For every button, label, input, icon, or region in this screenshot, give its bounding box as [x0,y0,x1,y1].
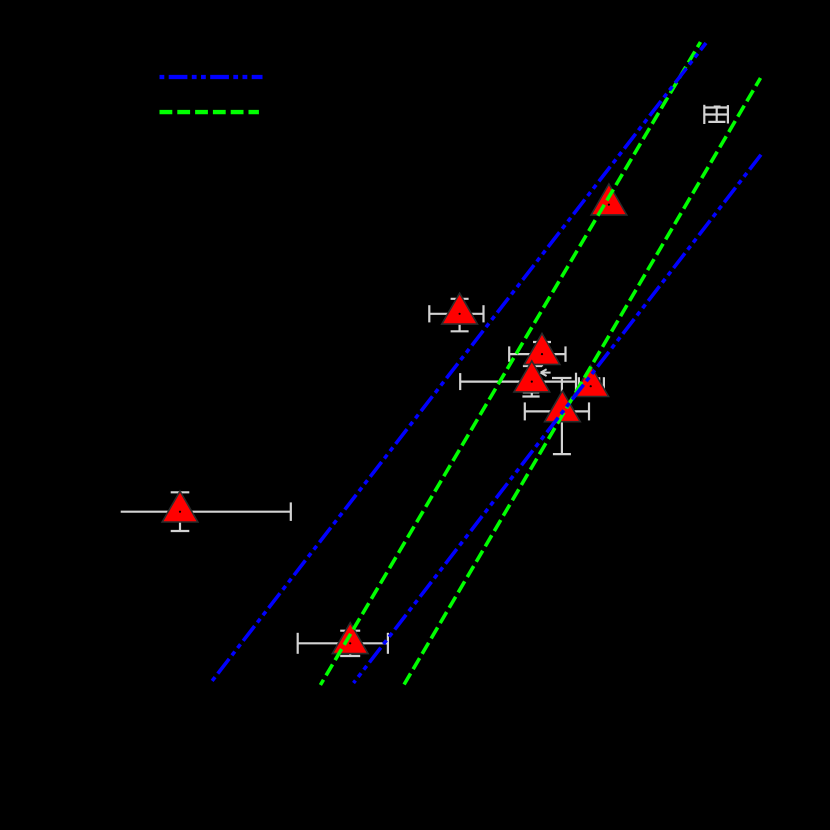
triangle T2 [442,293,478,324]
error bars point T3 [509,353,565,355]
error bars point T5 [579,385,604,387]
triangle T4 [514,361,550,392]
green dashed fit line 1 [320,42,700,685]
triangle T5 [573,366,609,397]
triangle T1 [591,184,627,215]
error bars point T8 [298,642,388,644]
triangle T8 [332,623,368,654]
error bars point T2 [429,313,483,315]
error bars group (light gray) [121,105,728,656]
blue dash-dot fit line 2 [354,154,762,683]
error bars point T7 [121,511,291,513]
triangle T7 [162,491,198,522]
red triangle markers [162,184,627,654]
legend sample: blue dash-dot line [160,75,263,79]
error bars point T6 [525,410,589,412]
legend sample: green dashed line [160,110,259,114]
blue dash-dot fit line 1 [210,43,706,684]
upper-limit arrow near T4/T5 [541,372,551,374]
green dashed fit line 2 [404,78,760,685]
triangle T6 [545,391,581,422]
black center dots on triangles [179,204,610,645]
triangle T3 [524,334,560,365]
small error-bar cluster top right [703,105,705,124]
error bars point T4 [460,381,576,383]
